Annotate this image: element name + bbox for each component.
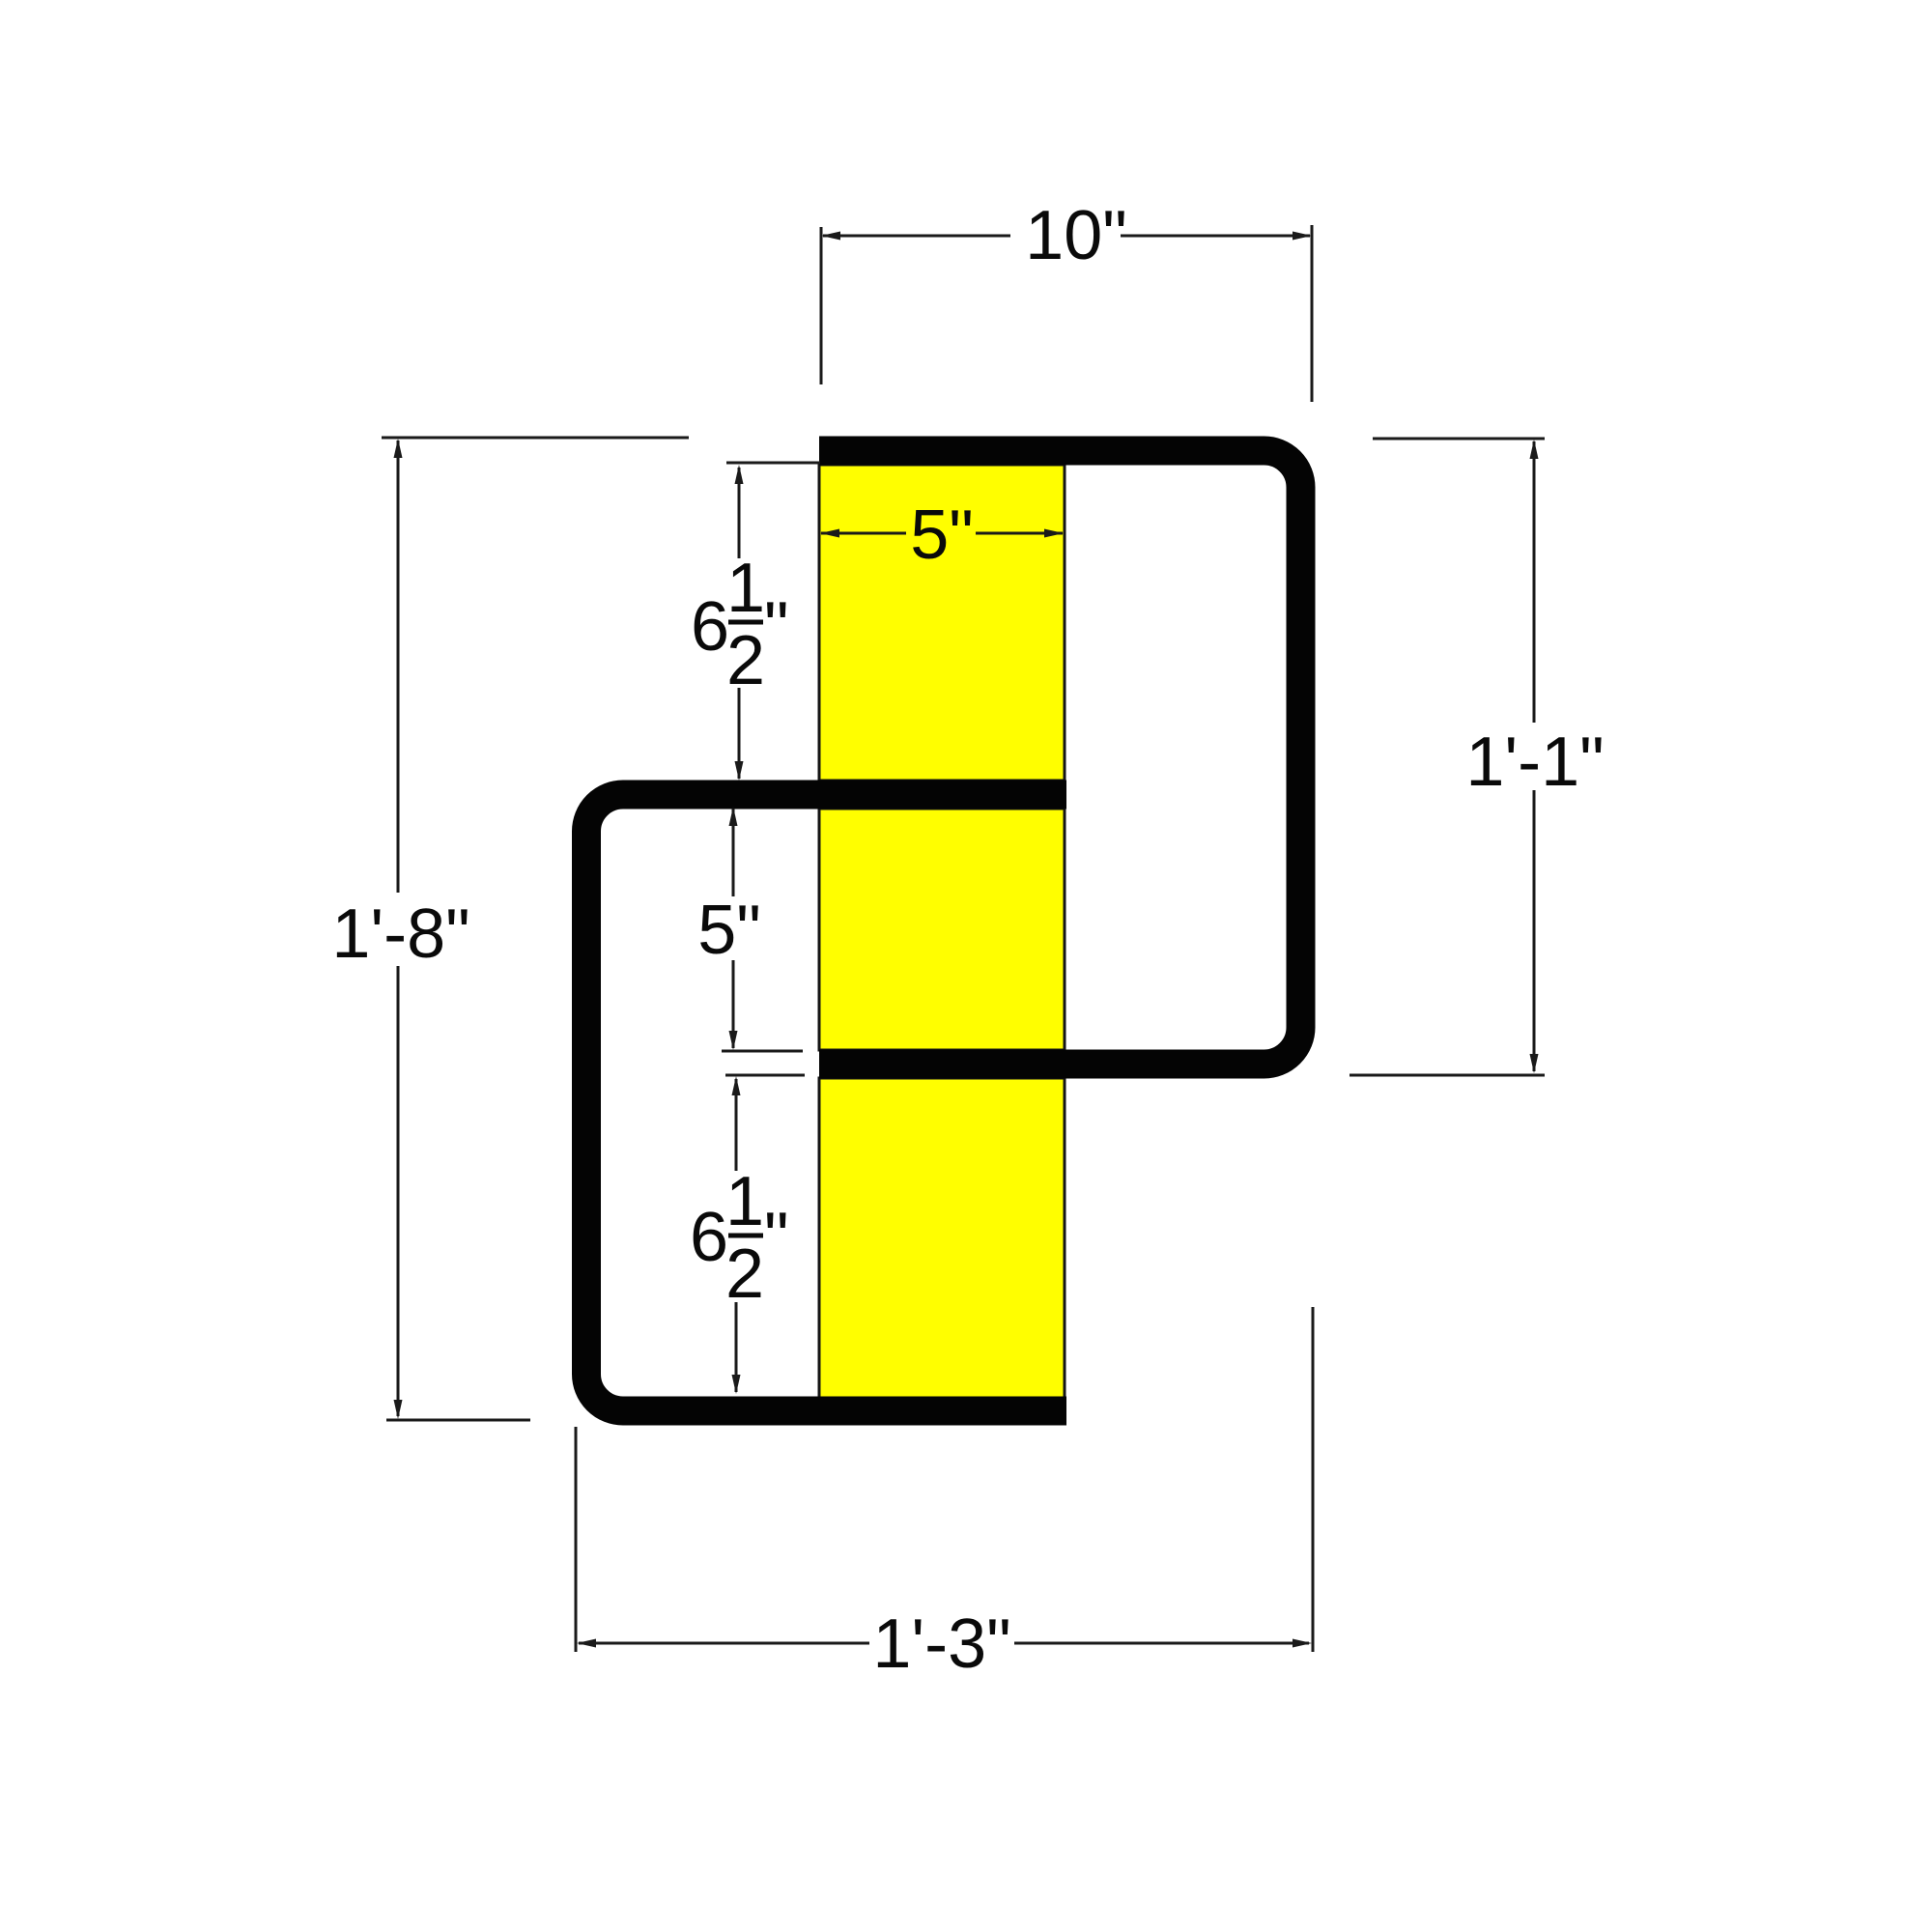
dimension 6 1/2" lower : arrowheads: [732, 1076, 741, 1095]
dimension 5" middle : dimension line: [732, 809, 735, 896]
svg-text:1'-1": 1'-1": [1465, 724, 1604, 801]
svg-text:5": 5": [910, 497, 974, 574]
dimension 1'-1" right : dimension line: [1533, 441, 1536, 723]
dimension 10" top : arrowheads: [821, 232, 840, 241]
svg-text:10": 10": [1025, 197, 1127, 274]
svg-text:1: 1: [725, 1163, 764, 1240]
yellow panel A (top): [819, 465, 1065, 781]
dimension 5" top : arrowheads: [820, 529, 839, 538]
dimension 10" top : extension lines: [820, 227, 823, 384]
dimension 6 1/2" upper : top tick: [726, 462, 820, 465]
svg-text:2: 2: [726, 622, 765, 699]
dimension 1'-3" bottom : arrowheads: [577, 1639, 596, 1648]
dimension 1'-1" right : extension lines: [1373, 438, 1545, 440]
upper channel (thick C-shape open left): [819, 451, 1301, 1065]
dimension 1'-3" bottom : extension lines: [575, 1427, 578, 1652]
dimension 1'-1" right : arrowheads: [1530, 440, 1539, 459]
dimension 1'-3" bottom : dimension line: [579, 1642, 869, 1645]
dimension 1'-8" left : arrowheads: [394, 439, 403, 458]
svg-text:6: 6: [690, 1199, 728, 1276]
yellow panel B (middle): [819, 809, 1065, 1050]
svg-text:6: 6: [691, 588, 729, 666]
dimension 1'-8" left : ticks: [382, 437, 689, 440]
svg-text:1'-3": 1'-3": [872, 1605, 1010, 1683]
svg-text:1: 1: [726, 550, 765, 627]
svg-text:2: 2: [725, 1236, 764, 1313]
dimension 1'-8" left : dimension line: [397, 440, 400, 893]
dimension 6 1/2" lower : dimension line: [735, 1079, 738, 1171]
dimension 5" middle : bottom ticks: [722, 1050, 803, 1053]
svg-text:1'-8": 1'-8": [331, 895, 469, 973]
lower channel (thick C-shape open right): [586, 795, 1066, 1411]
svg-text:": ": [764, 1199, 789, 1276]
dimension 6 1/2" upper : arrowheads: [735, 465, 744, 484]
svg-text:5": 5": [697, 892, 761, 969]
dimension 5" top (yellow width) : dimension line: [821, 532, 906, 535]
yellow panel C (bottom): [819, 1078, 1065, 1398]
dimension 6 1/2" upper : dimension line: [738, 468, 741, 558]
svg-text:": ": [764, 588, 789, 666]
dimension 5" middle : arrowheads: [729, 807, 738, 826]
dimension 10" top : dimension line: [823, 235, 1010, 238]
